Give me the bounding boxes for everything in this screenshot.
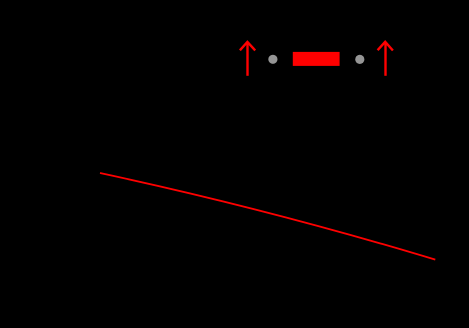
red rectangle marker: [293, 52, 340, 66]
left red up-arrow: [240, 42, 255, 76]
right red up-arrow: [378, 42, 393, 76]
red trend curve: [100, 173, 435, 260]
left gray dot: [268, 55, 277, 64]
right gray dot: [355, 55, 364, 64]
